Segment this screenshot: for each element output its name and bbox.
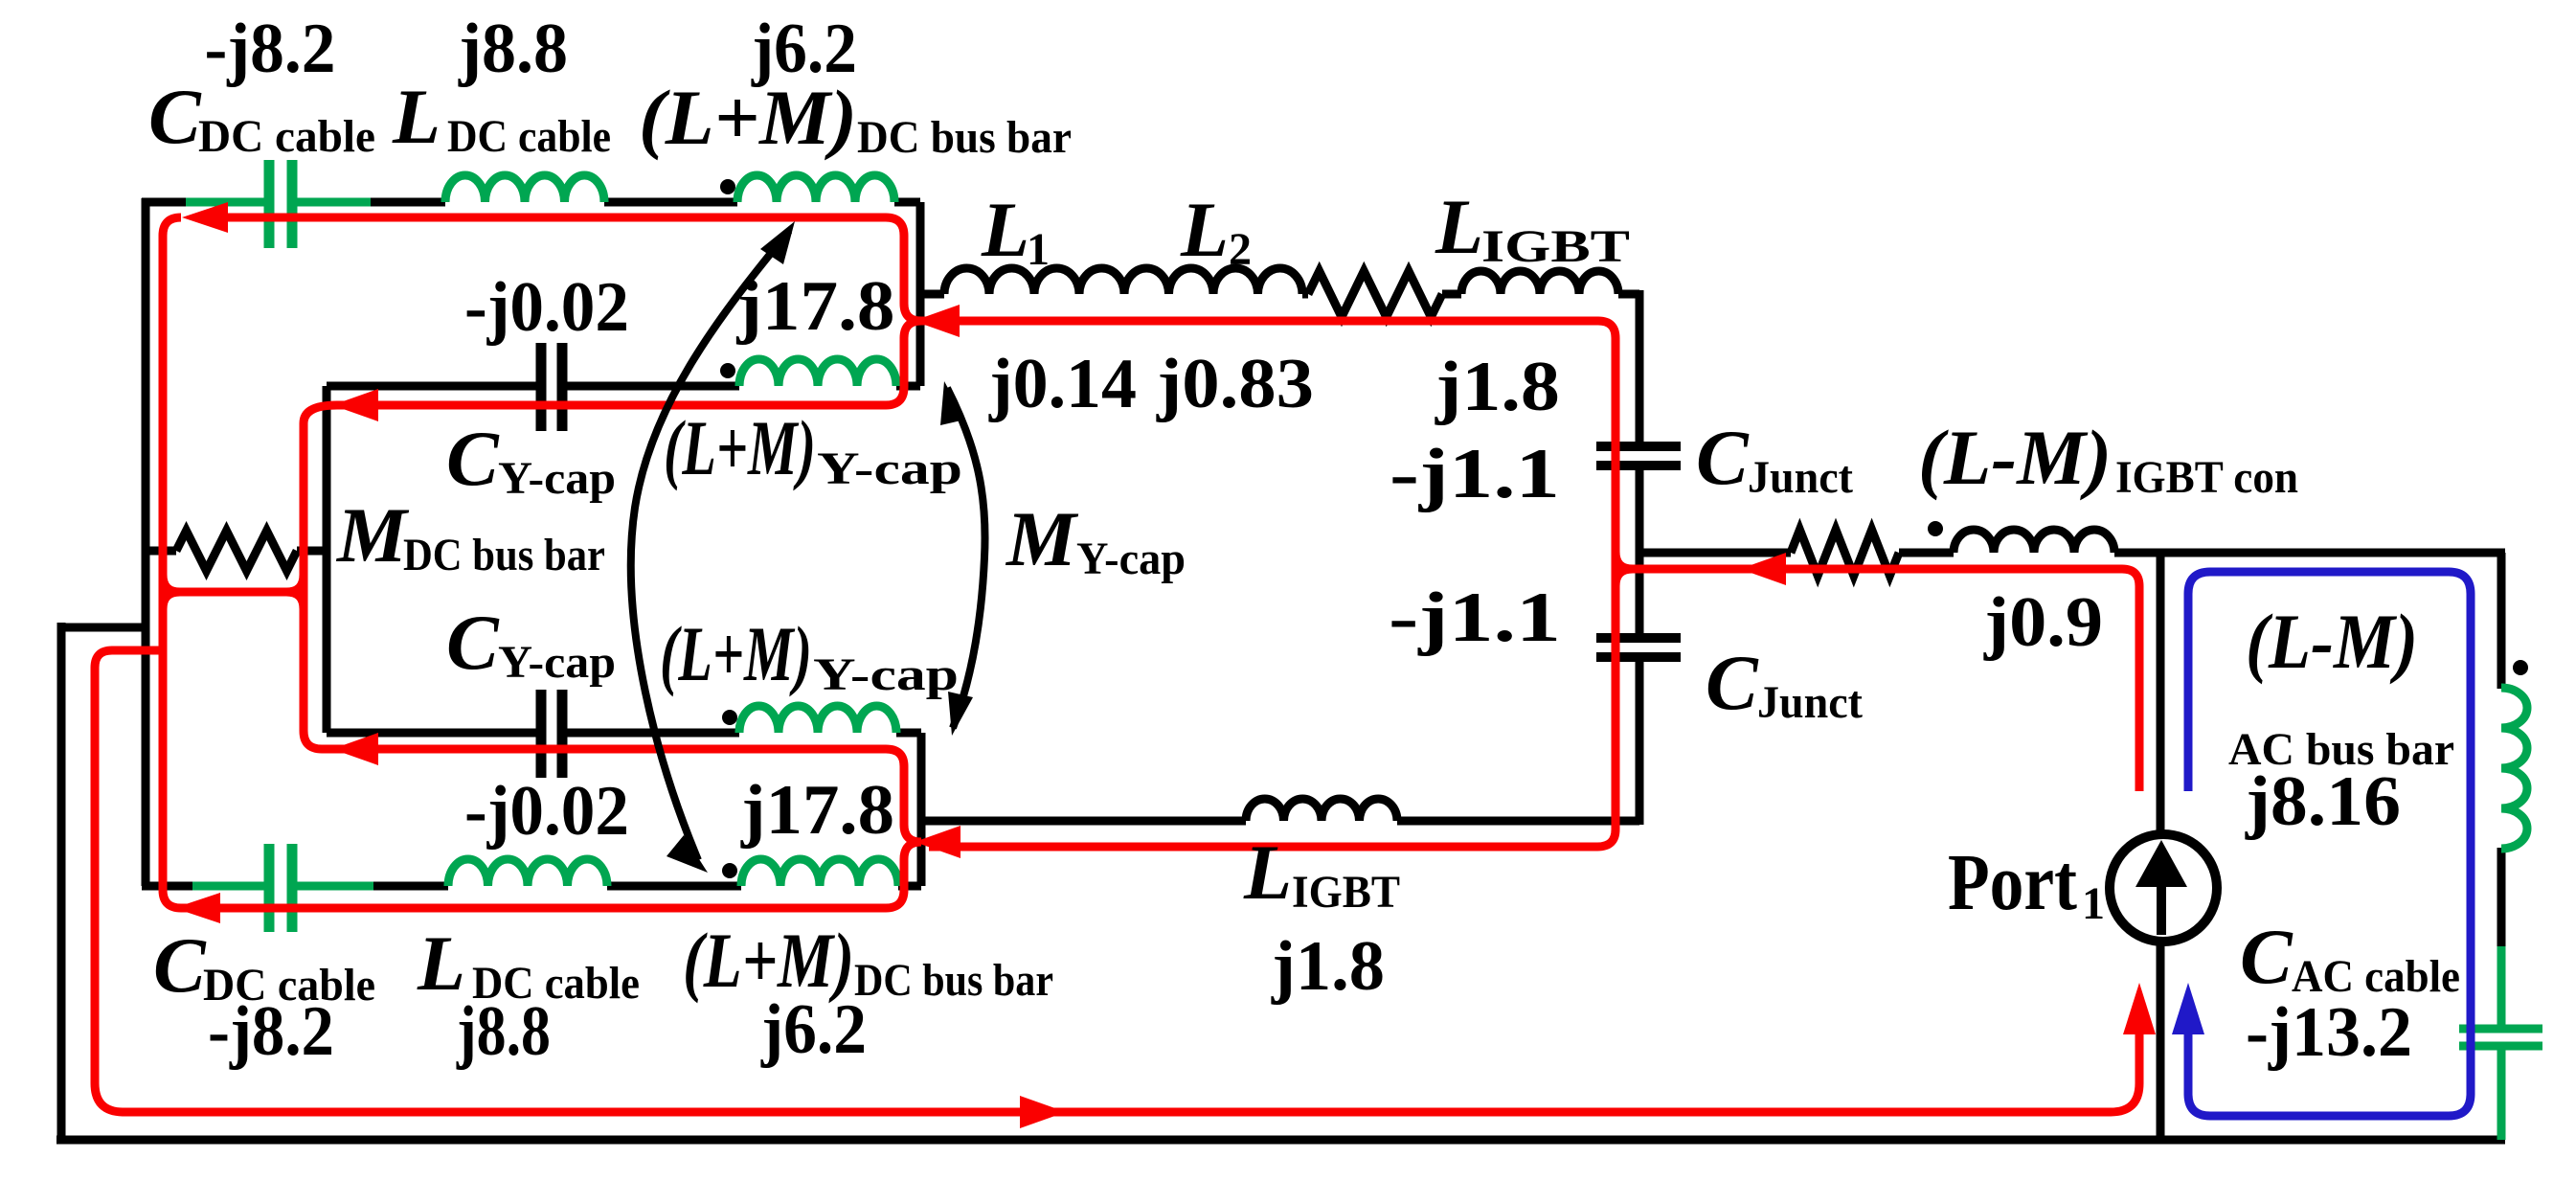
wire port vertical upper [2157,553,2165,833]
wire row B (C Y-cap top row) [327,382,536,391]
wire row A top DC bus [142,198,265,207]
capacitor C Y-cap top plates [536,343,547,431]
wire left inner vertical [142,198,150,886]
arrow red bottom mid [1020,1096,1066,1128]
capacitor C DC cable top plates [264,160,275,248]
wire bottom ground rail [56,1136,2505,1145]
wire red pinch curves M row [163,575,304,609]
inductor (L+M) Y-cap top [739,359,896,386]
inductor (L+M) Y-cap bottom [739,706,896,733]
wire row D bottom DC bus [142,882,265,891]
wire green row A left [186,198,264,207]
svg-text:-j1.1: -j1.1 [1390,435,1560,513]
arrow red row D [174,893,220,923]
wire AC green vertical lower [2497,1050,2506,1140]
arrow red row B [332,389,378,421]
arrow red LIGBT pinch [915,826,960,858]
wire row E (L1 L2 LIGBT row) [920,290,944,299]
svg-text:j8.8: j8.8 [458,10,568,88]
svg-text:-j0.02: -j0.02 [464,268,629,347]
wire port vertical lower [2157,933,2165,1140]
wire bracket bottom (node joining rows C,D to LIGBT) [917,733,926,886]
inductor (L+M) DC bus bar bottom [741,859,898,886]
wire row C (C Y-cap bottom row) [327,729,536,738]
resistor M DC bus bar [176,531,297,571]
svg-text:j1.8: j1.8 [1271,927,1385,1006]
coupling arrow M Y-cap [947,388,985,728]
wire right vertical between C Junct caps [1636,469,1644,633]
wire green row D left [192,882,264,891]
arrow red port up [2123,983,2156,1034]
inductor (L-M) IGBT con [1954,530,2114,553]
dot (L-M) IGBT con [1928,521,1943,536]
capacitor C Junct top plates [1596,442,1681,451]
svg-text:j0.83: j0.83 [1156,345,1314,423]
inductor L DC cable top [445,175,604,202]
svg-text:j0.14: j0.14 [988,345,1137,423]
dot (L+M) Y-cap bottom [722,710,737,725]
capacitor C AC cable plates [2459,1025,2542,1033]
wire AC right vertical middle [2497,848,2506,950]
wire red C Junct to port [1628,569,2139,791]
svg-text:j0.9: j0.9 [1983,583,2103,662]
arrow port source inner [2157,881,2166,935]
wire right vertical below C Junct bottom [1636,662,1644,825]
arrow red row E pinch [914,305,960,337]
inductor L DC cable bottom [448,859,607,886]
svg-text:-j8.2: -j8.2 [205,10,336,88]
capacitor C Junct bottom plates [1596,633,1681,643]
resistor R IGBT con [1791,530,1899,576]
current source Port1 circle [2110,834,2217,942]
svg-text:j8.8: j8.8 [456,992,551,1071]
wire green row D right of cap [297,882,373,891]
dot (L+M) DC bus bar top [720,179,735,194]
wire C Y-cap box left vertical [323,386,331,733]
wire AC right vertical upper [2497,553,2506,689]
wire AC green vertical upper [2497,946,2506,1025]
wire outer left vertical [57,623,66,1144]
wire red outer loop [95,650,2139,1112]
capacitor C Y-cap bottom plates [536,690,547,778]
arrow blue port up [2172,983,2204,1034]
svg-text:j1.8: j1.8 [1435,348,1560,426]
capacitor C DC cable bottom plates [264,844,275,932]
wire blue loop [2188,572,2471,1116]
wire bottom LIGBT row [921,817,1246,826]
inductor (L+M) DC bus bar top [737,175,894,202]
svg-text:j6.2: j6.2 [760,990,867,1069]
inductor L2 [1124,268,1302,294]
wire green row A right of cap [297,198,371,207]
dot (L+M) DC bus bar bottom [722,863,737,878]
arrow red row A [182,202,228,233]
svg-text:j17.8: j17.8 [735,267,894,346]
svg-text:-j13.2: -j13.2 [2246,993,2412,1072]
inductor (L-M) AC bus bar (vertical) [2501,688,2527,849]
svg-text:-j1.1: -j1.1 [1389,579,1561,657]
wire M DC bus bar resistor row [146,547,176,556]
wire right vertical above C Junct [1636,290,1644,443]
wire red shunt M row [163,588,304,597]
inductor L1 [944,268,1124,294]
resistor R loop (between L2 and L IGBT) [1308,271,1442,317]
wire (L-M) IGBT con row [1639,549,1791,557]
wire outer left top horizontal [61,624,146,632]
svg-text:-j0.02: -j0.02 [464,772,629,851]
arrow red C Junct row [1740,553,1786,585]
svg-text:j8.16: j8.16 [2245,762,2401,841]
inductor L IGBT top [1461,271,1618,294]
dot (L+M) Y-cap top [720,363,735,378]
wire red row E to right vertical [919,321,1616,847]
inductor L IGBT bottom [1246,799,1397,821]
svg-text:(L-M): (L-M) [2246,598,2418,685]
svg-text:-j8.2: -j8.2 [208,992,334,1071]
wire bracket top (node joining rows A,B to L1) [916,202,925,386]
wire red loop left main [163,217,921,908]
dot (L-M) AC bus bar [2513,660,2528,675]
coupling arrow M DC bus bar [631,231,789,860]
wire red pinch curves right vertical [1616,552,1633,586]
svg-text:j17.8: j17.8 [740,771,894,850]
arrow red row C [332,733,378,765]
